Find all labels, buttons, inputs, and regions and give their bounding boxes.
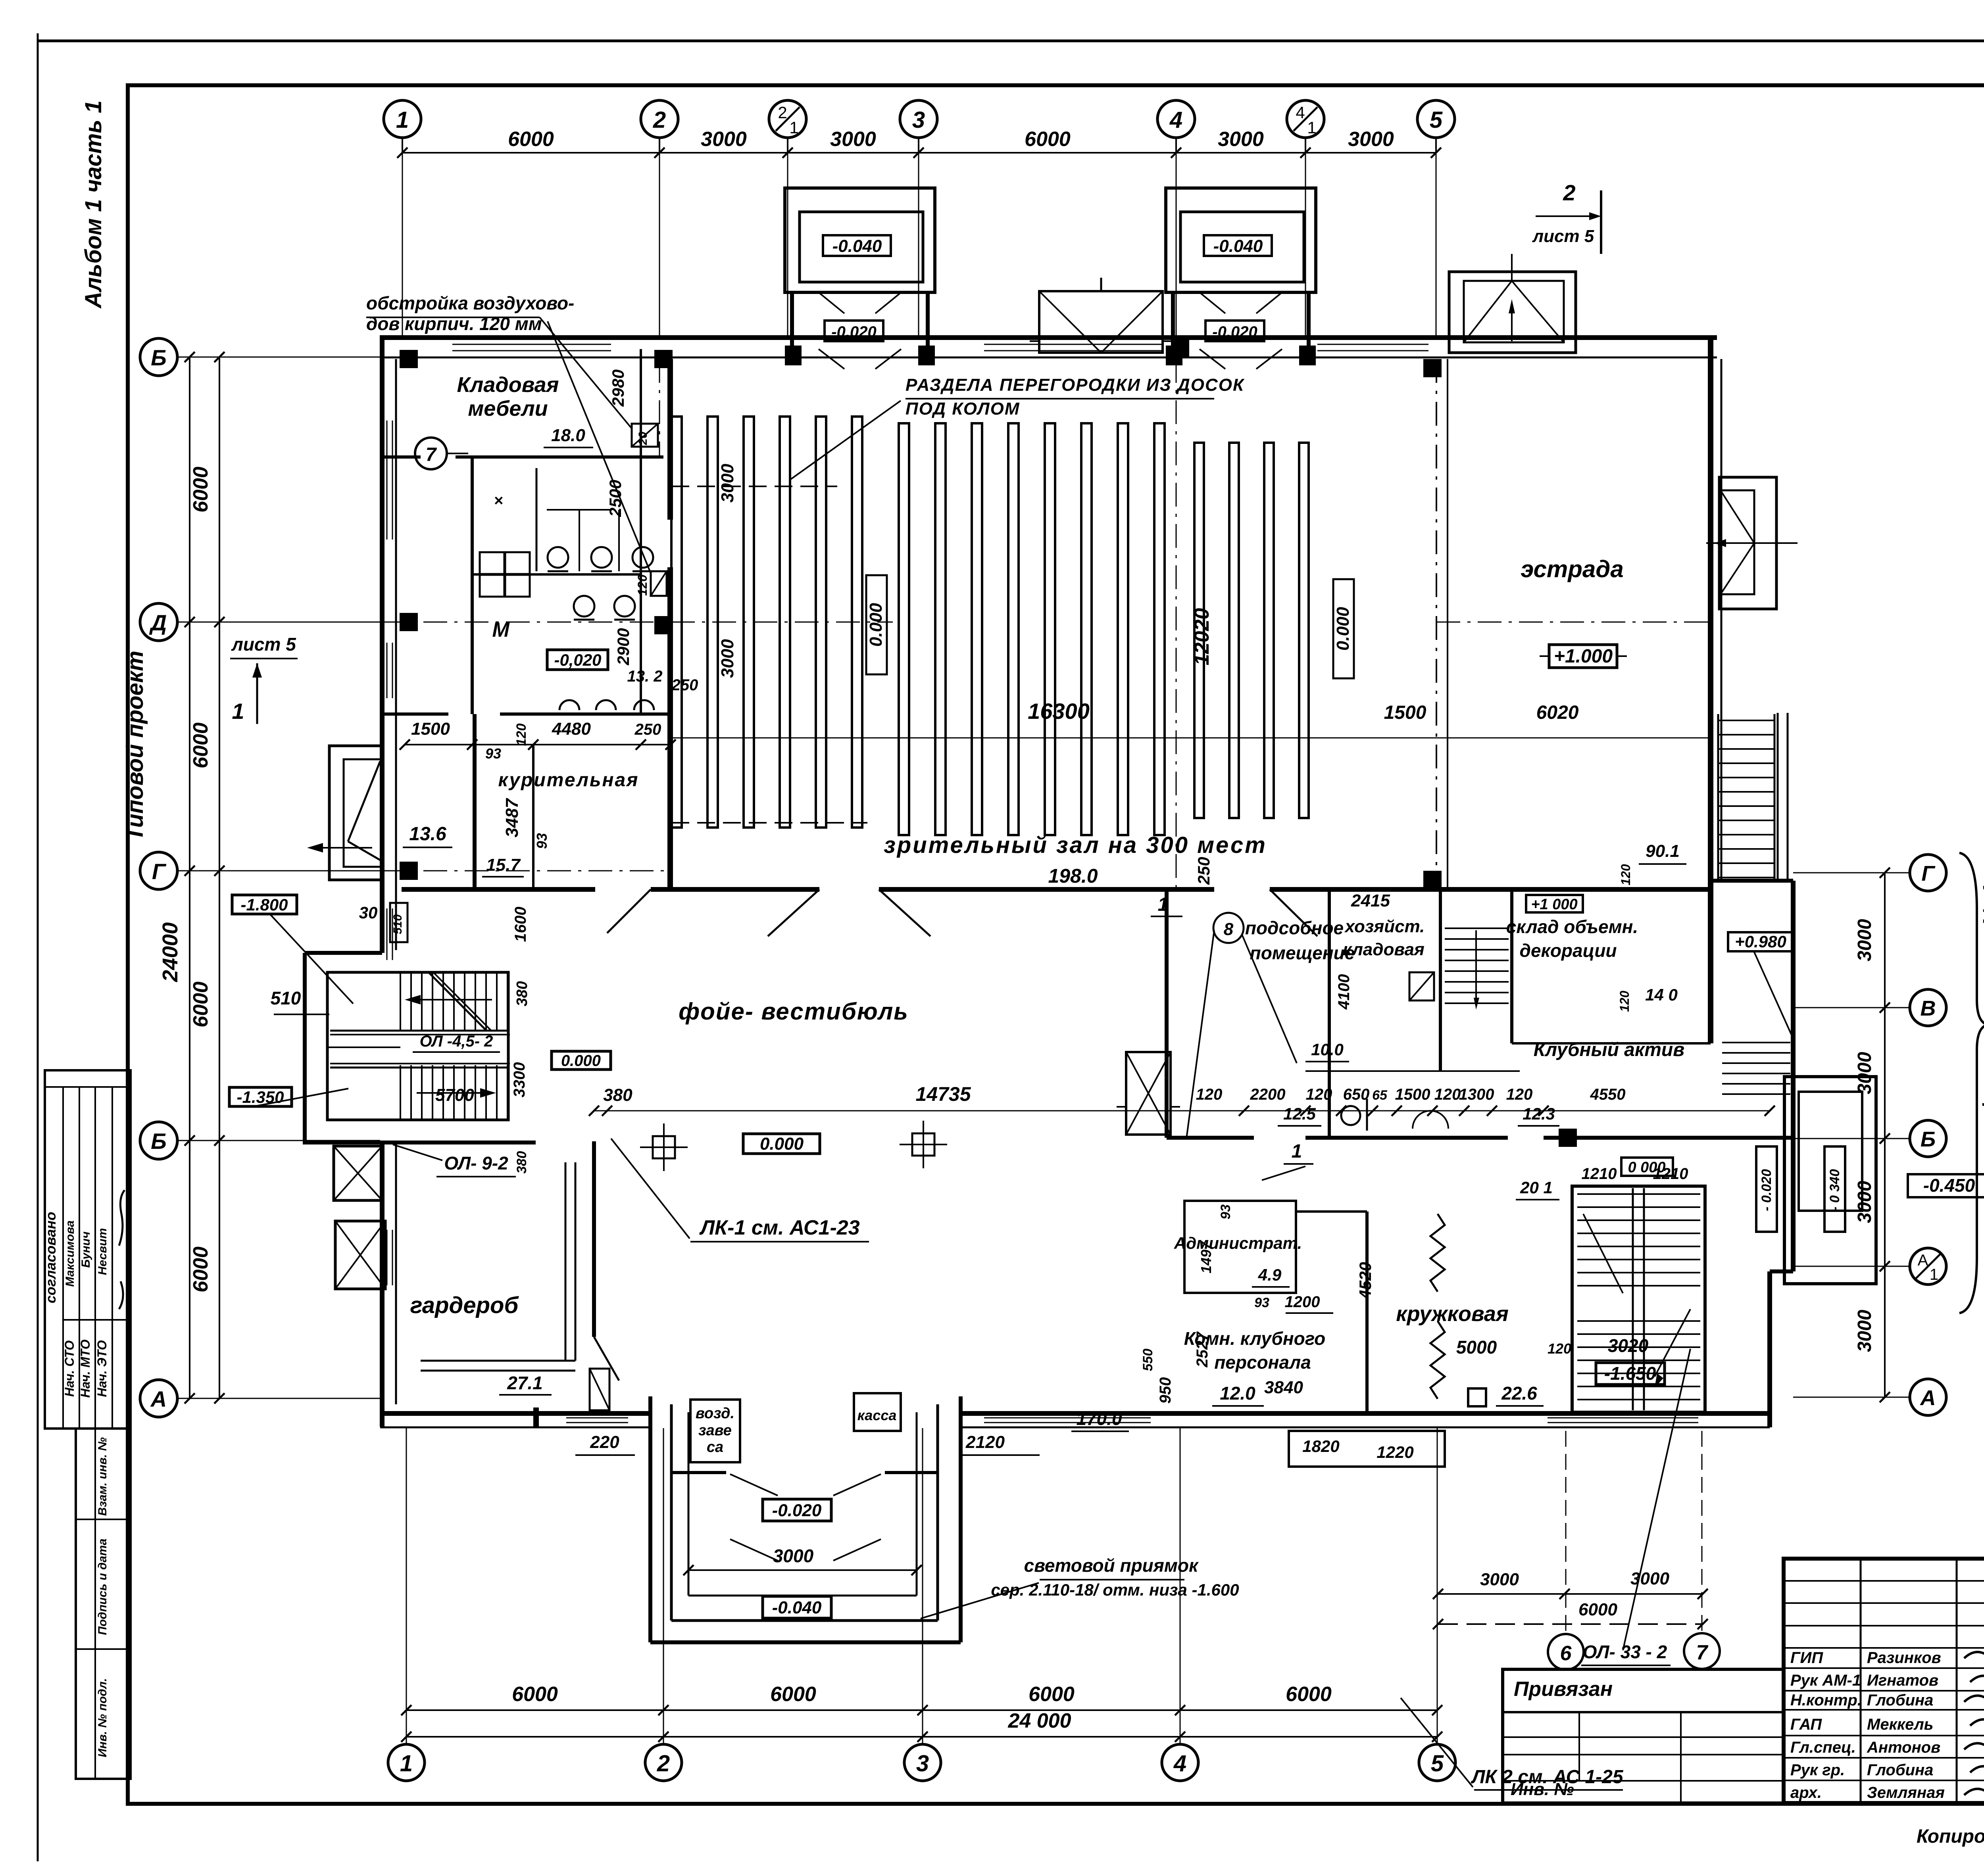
svg-text:2980: 2980 bbox=[609, 369, 627, 407]
svg-text:Гл.спец.: Гл.спец. bbox=[1790, 1739, 1856, 1756]
svg-text:сер. 2.110-18/ отм. низа -1.60: сер. 2.110-18/ отм. низа -1.600 bbox=[991, 1580, 1239, 1599]
svg-text:2120: 2120 bbox=[965, 1432, 1005, 1452]
svg-text:6000: 6000 bbox=[770, 1683, 816, 1706]
door post (bottom wall near axis 1) bbox=[533, 1407, 539, 1427]
svg-text:1497: 1497 bbox=[1198, 1241, 1214, 1273]
svg-text:8: 8 bbox=[1224, 920, 1234, 939]
svg-text:РАЗДЕЛА ПЕРЕГОРОДКИ ИЗ ДОСОК: РАЗДЕЛА ПЕРЕГОРОДКИ ИЗ ДОСОК bbox=[905, 375, 1245, 395]
svg-text:6000: 6000 bbox=[508, 128, 554, 151]
svg-text:-0.020: -0.020 bbox=[831, 323, 876, 341]
svg-text:Бунич: Бунич bbox=[79, 1231, 92, 1267]
svg-text:2527: 2527 bbox=[1194, 1331, 1211, 1368]
svg-text:Нач. МТО: Нач. МТО bbox=[78, 1339, 92, 1398]
svg-text:7: 7 bbox=[1696, 1641, 1709, 1664]
svg-text:3840: 3840 bbox=[1264, 1378, 1303, 1397]
svg-text:-0.040: -0.040 bbox=[772, 1598, 822, 1617]
svg-text:подсобное: подсобное bbox=[1245, 918, 1344, 938]
building top outer wall (axis Б) bbox=[380, 335, 1717, 340]
svg-text:13.6: 13.6 bbox=[409, 824, 446, 845]
fixtures middle band bbox=[1409, 972, 1434, 1000]
svg-text:0 000: 0 000 bbox=[1628, 1159, 1665, 1176]
svg-text:1: 1 bbox=[1158, 894, 1169, 915]
inventory stamp block (Инв / Подпись / Взам) bbox=[76, 1429, 131, 1779]
axis 2 bottom circle bbox=[645, 1744, 682, 1781]
svg-text:Максимова: Максимова bbox=[63, 1220, 77, 1287]
stair ЛК-2 block bbox=[1572, 1186, 1705, 1412]
axis 6 bottom circle bbox=[1548, 1634, 1584, 1670]
approval stamp block (согласовано) bbox=[45, 1070, 131, 1429]
svg-text:3487: 3487 bbox=[502, 798, 522, 837]
door mark 7 bbox=[415, 438, 447, 469]
svg-text:20: 20 bbox=[636, 432, 650, 445]
svg-text:6000: 6000 bbox=[1025, 128, 1071, 151]
svg-text:Глобина: Глобина bbox=[1867, 1761, 1933, 1779]
bottom entrance vestibule (axis 2-3) nested walls bbox=[648, 1396, 652, 1642]
dim 3000 bottom vestibule bbox=[688, 1569, 917, 1571]
svg-text:4: 4 bbox=[1296, 103, 1305, 122]
svg-text:3000: 3000 bbox=[1854, 1310, 1875, 1352]
stage exit opening with X bbox=[1719, 477, 1776, 609]
window double lines top wall bbox=[452, 344, 611, 345]
svg-text:помещение: помещение bbox=[1250, 943, 1355, 963]
svg-text:кладовая: кладовая bbox=[1343, 940, 1425, 959]
elevation 0.000 (hall right) bbox=[1333, 579, 1354, 678]
svg-text:Инв. № подл.: Инв. № подл. bbox=[96, 1678, 109, 1757]
vestibule partitions bbox=[671, 1471, 726, 1474]
svg-text:93: 93 bbox=[1254, 1295, 1269, 1310]
window double lines left wall bbox=[386, 421, 388, 540]
svg-text:-0,020: -0,020 bbox=[554, 651, 601, 669]
svg-text:4: 4 bbox=[1173, 1751, 1186, 1776]
svg-text:22.6: 22.6 bbox=[1501, 1383, 1537, 1404]
auditorium seat rows group B bbox=[899, 423, 909, 835]
svg-text:93: 93 bbox=[1218, 1204, 1233, 1219]
svg-text:16300: 16300 bbox=[1028, 699, 1090, 724]
svg-text:хозяйст.: хозяйст. bbox=[1344, 917, 1425, 936]
svg-text:6020: 6020 bbox=[1536, 702, 1579, 723]
svg-text:2: 2 bbox=[653, 107, 666, 133]
svg-text:Игнатов: Игнатов bbox=[1867, 1672, 1938, 1689]
svg-text:световой приямок: световой приямок bbox=[1024, 1555, 1199, 1576]
svg-text:12.5: 12.5 bbox=[1283, 1104, 1316, 1123]
svg-text:2200: 2200 bbox=[1250, 1086, 1286, 1103]
svg-text:93: 93 bbox=[485, 745, 501, 762]
elevation 0.000 (foyer near stair) bbox=[552, 1051, 611, 1070]
svg-text:Кладовая: Кладовая bbox=[457, 373, 559, 397]
svg-text:93: 93 bbox=[534, 833, 550, 849]
svg-text:Типовой проект: Типовой проект bbox=[122, 651, 148, 841]
svg-text:1210: 1210 bbox=[1582, 1165, 1617, 1183]
svg-text:×: × bbox=[494, 492, 503, 509]
stair arrows bbox=[413, 999, 492, 1000]
svg-text:220: 220 bbox=[590, 1432, 619, 1452]
svg-text:250: 250 bbox=[1194, 857, 1213, 885]
svg-text:фойе- вестибюль: фойе- вестибюль bbox=[679, 998, 909, 1025]
elevation -0.450 bbox=[1908, 1174, 1984, 1197]
svg-text:1: 1 bbox=[232, 699, 244, 724]
svg-text:курительная: курительная bbox=[498, 770, 639, 791]
elevation -1.350 bbox=[229, 1087, 292, 1106]
toilet block walls bbox=[471, 459, 474, 714]
axis А left circle bbox=[140, 1380, 177, 1417]
stall partitions bbox=[536, 468, 538, 571]
axis 5 top circle bbox=[1417, 100, 1455, 138]
svg-text:гардероб: гардероб bbox=[410, 1292, 519, 1318]
svg-text:4520: 4520 bbox=[1356, 1262, 1375, 1299]
svg-text:Г: Г bbox=[152, 859, 167, 884]
svg-text:6000: 6000 bbox=[189, 981, 212, 1027]
hall internal dimension line 16300 bbox=[671, 737, 1711, 739]
svg-text:0.000: 0.000 bbox=[1333, 607, 1353, 651]
right porch nested rects bbox=[1784, 1077, 1876, 1284]
hall south wall bbox=[402, 887, 595, 892]
elevation 0.000 (hall left) bbox=[866, 575, 887, 674]
corridor wall axis Б2 bbox=[1167, 1136, 1254, 1140]
svg-text:Рук АМ-1: Рук АМ-1 bbox=[1790, 1672, 1861, 1689]
axis 2 top circle bbox=[641, 100, 678, 138]
svg-text:120: 120 bbox=[1617, 991, 1632, 1012]
wardrobe counter bbox=[565, 1162, 567, 1361]
svg-text:Меккель: Меккель bbox=[1867, 1716, 1933, 1733]
svg-text:Взам. инв. №: Взам. инв. № bbox=[96, 1437, 109, 1516]
axis 3 bottom circle bbox=[904, 1744, 941, 1781]
svg-text:4.9: 4.9 bbox=[1258, 1265, 1282, 1284]
svg-text:120: 120 bbox=[1548, 1340, 1571, 1357]
building bottom outer wall (axis А) bbox=[380, 1411, 648, 1416]
svg-text:1: 1 bbox=[400, 1751, 413, 1776]
svg-text:касса: касса bbox=[857, 1407, 897, 1423]
svg-text:380: 380 bbox=[514, 1151, 529, 1174]
svg-text:1500: 1500 bbox=[1395, 1086, 1430, 1103]
title block main frame bbox=[1784, 1559, 1984, 1803]
svg-text:- 0.020: - 0.020 bbox=[1759, 1169, 1774, 1211]
svg-text:ГАП: ГАП bbox=[1790, 1716, 1822, 1733]
svg-text:-0.020: -0.020 bbox=[772, 1501, 822, 1520]
svg-text:ОЛ -4,5- 2: ОЛ -4,5- 2 bbox=[420, 1033, 493, 1050]
svg-text:Нач. СТО: Нач. СТО bbox=[62, 1340, 77, 1397]
top entrance vestibule outer bbox=[785, 188, 935, 292]
svg-text:24 000: 24 000 bbox=[1007, 1709, 1071, 1732]
возд.завеса box bbox=[690, 1400, 740, 1462]
bottom axis dimension lines bbox=[406, 1709, 1437, 1711]
svg-text:-1.800: -1.800 bbox=[240, 895, 288, 914]
vestibule inner passage bbox=[1171, 292, 1175, 359]
urinal arcs bbox=[559, 700, 579, 710]
svg-text:А: А bbox=[150, 1386, 167, 1411]
axis 4/1 top circle bbox=[1287, 100, 1324, 138]
svg-text:550: 550 bbox=[1140, 1349, 1155, 1371]
axis Б right circle bbox=[1910, 1120, 1946, 1157]
axis 4 top circle bbox=[1157, 100, 1195, 138]
door swings bottom vestibule bbox=[730, 1474, 778, 1496]
svg-text:120: 120 bbox=[1434, 1086, 1461, 1103]
svg-text:3000: 3000 bbox=[1218, 128, 1264, 151]
stage right wall bbox=[1708, 335, 1713, 1043]
auditorium seat rows group A bbox=[671, 417, 682, 828]
svg-text:са: са bbox=[707, 1439, 723, 1455]
svg-text:эстрада: эстрада bbox=[1521, 556, 1624, 582]
svg-text:Нач. ЭТО: Нач. ЭТО bbox=[95, 1340, 109, 1397]
storage room partition (кладовая мебели) bbox=[382, 455, 421, 459]
left axis circles and dims bbox=[219, 357, 220, 1398]
svg-text:1500: 1500 bbox=[1384, 702, 1426, 723]
svg-text:7: 7 bbox=[426, 444, 437, 465]
svg-text:Несвит: Несвит bbox=[96, 1228, 109, 1275]
svg-text:3000: 3000 bbox=[1854, 1052, 1875, 1094]
top axis dimension line bbox=[402, 152, 1436, 154]
svg-text:18.0: 18.0 bbox=[551, 426, 585, 445]
svg-text:Копировал: Рулькова: Копировал: Рулькова bbox=[1917, 1826, 1984, 1847]
svg-text:+1 000: +1 000 bbox=[1531, 896, 1577, 913]
title block signature grid bbox=[1860, 1559, 1862, 1803]
elevation -0.020 (toilets) bbox=[547, 650, 608, 670]
axis Б left circle bbox=[140, 1122, 177, 1159]
svg-text:-1.350: -1.350 bbox=[236, 1088, 284, 1106]
svg-text:Клубный актив: Клубный актив bbox=[1534, 1039, 1684, 1060]
title block left extension (Привязан / Инв №) bbox=[1503, 1669, 1784, 1803]
svg-text:- 0 340: - 0 340 bbox=[1827, 1169, 1842, 1211]
svg-text:6000: 6000 bbox=[189, 1246, 212, 1292]
elevation -1.800 bbox=[232, 895, 297, 914]
svg-text:3000: 3000 bbox=[718, 464, 737, 503]
svg-text:ПОД КОЛОМ: ПОД КОЛОМ bbox=[905, 399, 1020, 419]
svg-text:14 0: 14 0 bbox=[1645, 985, 1678, 1004]
svg-text:декорации: декорации bbox=[1519, 940, 1617, 961]
svg-text:1600: 1600 bbox=[512, 907, 529, 942]
sheet outer trim border bbox=[37, 33, 39, 1861]
svg-text:-1.650: -1.650 bbox=[1604, 1363, 1656, 1384]
door mark 8 leader bbox=[1186, 930, 1214, 1139]
elevation -0.040 bbox=[1204, 235, 1272, 256]
niche with hatch (кладовая) bbox=[632, 424, 658, 447]
svg-text:12020: 12020 bbox=[1190, 608, 1213, 666]
main stair ОЛ-4,5-2 well bbox=[327, 972, 508, 1120]
svg-text:Рук гр.: Рук гр. bbox=[1790, 1761, 1845, 1779]
svg-text:ОЛ- 9-2: ОЛ- 9-2 bbox=[444, 1153, 508, 1173]
column marks foyer bbox=[653, 1136, 675, 1158]
svg-text:510: 510 bbox=[391, 914, 404, 934]
svg-text:Земляная: Земляная bbox=[1867, 1784, 1945, 1801]
svg-text:3: 3 bbox=[912, 107, 925, 133]
svg-text:5: 5 bbox=[1431, 1751, 1444, 1776]
vestibule inner passage bbox=[790, 292, 794, 359]
toilet fixtures bbox=[480, 552, 504, 574]
left porch upper (ОЛ-9-2 exit) bbox=[334, 1146, 382, 1200]
svg-text:3020: 3020 bbox=[1608, 1335, 1649, 1356]
svg-text:6000: 6000 bbox=[1029, 1683, 1075, 1706]
svg-text:Разинков: Разинков bbox=[1867, 1649, 1941, 1667]
svg-text:Б: Б bbox=[1921, 1127, 1936, 1151]
svg-text:6000: 6000 bbox=[1286, 1683, 1332, 1706]
folding partition (кружковая) bbox=[1430, 1214, 1445, 1292]
svg-text:13. 2: 13. 2 bbox=[627, 668, 663, 685]
svg-text:120: 120 bbox=[1196, 1086, 1223, 1103]
platform with X between vestibules bbox=[1039, 291, 1163, 353]
svg-text:20 1: 20 1 bbox=[1520, 1178, 1553, 1197]
small house stair (хоз) bbox=[1445, 927, 1509, 929]
svg-text:4: 4 bbox=[1169, 107, 1182, 133]
svg-text:120: 120 bbox=[1306, 1086, 1332, 1103]
proscenium line bbox=[1436, 359, 1437, 889]
svg-text:6000: 6000 bbox=[512, 1683, 558, 1706]
foyer dim line 14735 bbox=[594, 1110, 1770, 1112]
svg-text:В: В bbox=[1921, 997, 1936, 1020]
svg-text:1: 1 bbox=[1307, 118, 1316, 137]
svg-text:170.0: 170.0 bbox=[1076, 1408, 1122, 1429]
svg-text:Н.контр.: Н.контр. bbox=[1790, 1692, 1862, 1709]
svg-text:1820: 1820 bbox=[1302, 1437, 1339, 1455]
axis 4 bottom circle bbox=[1162, 1744, 1198, 1781]
axis Д left circle bbox=[140, 603, 177, 641]
left porch at smoking room (Д-Г) bbox=[329, 746, 382, 880]
svg-text:0.000: 0.000 bbox=[866, 603, 886, 647]
svg-text:+0.980: +0.980 bbox=[1735, 932, 1786, 951]
elevation -1.650 bbox=[1596, 1363, 1665, 1384]
svg-text:2500: 2500 bbox=[606, 480, 625, 517]
svg-text:90.1: 90.1 bbox=[1646, 841, 1680, 861]
svg-text:согласовано: согласовано bbox=[42, 1212, 59, 1304]
dims under toilets bbox=[405, 744, 671, 745]
axis В right circle bbox=[1910, 989, 1946, 1026]
axis 7 bottom circle bbox=[1684, 1633, 1720, 1669]
svg-text:15.7: 15.7 bbox=[486, 855, 521, 875]
svg-text:зрительный зал на 300 мест: зрительный зал на 300 мест bbox=[884, 832, 1267, 858]
axis Д dash line through plan bbox=[382, 622, 893, 623]
svg-text:Б: Б bbox=[151, 345, 167, 370]
top entrance vestibule outer bbox=[1166, 188, 1316, 292]
axis 2/1 top circle bbox=[769, 100, 806, 138]
svg-text:380: 380 bbox=[603, 1085, 632, 1105]
svg-text:2900: 2900 bbox=[614, 628, 632, 665]
svg-text:3000: 3000 bbox=[1348, 128, 1394, 151]
fragment brace bbox=[1959, 853, 1984, 1313]
partition hall/foyer bbox=[667, 359, 673, 520]
axis А/1 right circle bbox=[1910, 1248, 1946, 1285]
window niche with diagonal (гардероб south) bbox=[590, 1369, 609, 1410]
svg-text:фрагмент плана № 1: фрагмент плана № 1 bbox=[1979, 883, 1984, 1116]
svg-text:1500: 1500 bbox=[411, 719, 450, 739]
svg-text:1: 1 bbox=[1930, 1266, 1938, 1283]
svg-text:-0.040: -0.040 bbox=[832, 236, 882, 256]
svg-text:6: 6 bbox=[1560, 1642, 1572, 1665]
svg-text:5700: 5700 bbox=[435, 1085, 474, 1105]
svg-text:Привязан: Привязан bbox=[1514, 1678, 1613, 1701]
svg-text:1300: 1300 bbox=[1459, 1086, 1494, 1103]
elevation 0 000 bbox=[1621, 1158, 1673, 1176]
svg-text:14735: 14735 bbox=[915, 1083, 971, 1105]
elevation -0.040 bbox=[823, 235, 891, 256]
svg-text:ЛК-1 см. АС1-23: ЛК-1 см. АС1-23 bbox=[699, 1216, 859, 1239]
svg-text:120: 120 bbox=[514, 724, 529, 746]
svg-text:12.0: 12.0 bbox=[1220, 1383, 1255, 1404]
lower rooms partitions bbox=[1184, 1201, 1296, 1293]
svg-text:кружковая: кружковая bbox=[1396, 1302, 1509, 1326]
svg-text:3000: 3000 bbox=[830, 128, 876, 151]
svg-text:24000: 24000 bbox=[158, 922, 182, 982]
axis Г left circle bbox=[140, 852, 177, 889]
svg-text:380: 380 bbox=[514, 981, 531, 1006]
axis Г right circle bbox=[1910, 854, 1946, 891]
svg-text:950: 950 bbox=[1157, 1377, 1174, 1404]
svg-text:2: 2 bbox=[1563, 180, 1575, 205]
svg-text:1200: 1200 bbox=[1285, 1293, 1320, 1311]
axis 1 top circle bbox=[384, 100, 421, 138]
smoking room partition bbox=[473, 714, 477, 889]
svg-text:Д: Д bbox=[149, 610, 167, 635]
svg-text:198.0: 198.0 bbox=[1048, 865, 1098, 887]
svg-text:250: 250 bbox=[634, 721, 661, 738]
svg-text:лист 5: лист 5 bbox=[1532, 227, 1594, 246]
left porch lower bbox=[335, 1221, 385, 1289]
axis 4 dash line through hall bbox=[1176, 359, 1177, 889]
axis 2 dash line through storage bbox=[659, 359, 660, 457]
svg-text:5000: 5000 bbox=[1456, 1337, 1497, 1358]
svg-text:5: 5 bbox=[1430, 107, 1443, 133]
svg-text:Г: Г bbox=[1921, 862, 1936, 885]
svg-text:3300: 3300 bbox=[511, 1062, 528, 1098]
exterior stair right of stage bbox=[1717, 714, 1719, 881]
svg-text:мебели: мебели bbox=[468, 397, 548, 421]
stage side stair +0.980 bbox=[1722, 1042, 1790, 1043]
svg-text:65: 65 bbox=[1372, 1088, 1388, 1103]
svg-text:2415: 2415 bbox=[1351, 891, 1390, 910]
svg-text:заве: заве bbox=[698, 1422, 732, 1439]
middle band rooms bbox=[1213, 913, 1244, 943]
elevation -0.020 (right porch) bbox=[1756, 1146, 1777, 1232]
partition split dashed lines bbox=[671, 486, 837, 487]
svg-text:6000: 6000 bbox=[189, 467, 212, 513]
svg-text:2: 2 bbox=[657, 1751, 670, 1776]
svg-text:1: 1 bbox=[1292, 1141, 1302, 1162]
svg-text:-0.450: -0.450 bbox=[1923, 1175, 1975, 1196]
svg-text:Антонов: Антонов bbox=[1867, 1739, 1940, 1756]
svg-text:А: А bbox=[1918, 1252, 1928, 1269]
svg-text:Глобина: Глобина bbox=[1867, 1692, 1933, 1709]
svg-text:120: 120 bbox=[1619, 864, 1633, 885]
svg-text:+1.000: +1.000 bbox=[1554, 646, 1613, 667]
svg-text:лист 5: лист 5 bbox=[231, 634, 296, 655]
svg-text:ГИП: ГИП bbox=[1790, 1649, 1823, 1667]
svg-text:6000: 6000 bbox=[189, 722, 212, 768]
svg-text:М: М bbox=[492, 618, 510, 641]
svg-text:10.0: 10.0 bbox=[1311, 1040, 1344, 1059]
svg-text:дов кирпич. 120 мм: дов кирпич. 120 мм bbox=[366, 313, 542, 334]
axis 5 bottom circle bbox=[1419, 1744, 1455, 1781]
svg-text:-0.020: -0.020 bbox=[1212, 323, 1257, 341]
svg-text:4480: 4480 bbox=[552, 719, 591, 739]
svg-text:3000: 3000 bbox=[1854, 1181, 1875, 1223]
bottom porch near кружковая bbox=[1289, 1431, 1445, 1467]
svg-text:ЛК 2 см. АС 1-25: ЛК 2 см. АС 1-25 bbox=[1471, 1767, 1623, 1788]
svg-text:арх.: арх. bbox=[1790, 1784, 1822, 1801]
svg-text:Подпись и дата: Подпись и дата bbox=[96, 1538, 109, 1635]
svg-text:650: 650 bbox=[1343, 1086, 1370, 1103]
svg-text:0.000: 0.000 bbox=[760, 1134, 804, 1154]
svg-text:510: 510 bbox=[271, 988, 301, 1008]
elevation -0.340 bbox=[1824, 1146, 1845, 1232]
svg-text:3000: 3000 bbox=[1480, 1570, 1519, 1589]
svg-text:250: 250 bbox=[671, 676, 698, 694]
svg-text:120: 120 bbox=[635, 574, 650, 596]
svg-text:возд.: возд. bbox=[696, 1405, 734, 1422]
axis А right circle bbox=[1910, 1379, 1946, 1415]
svg-text:1: 1 bbox=[789, 118, 798, 137]
svg-text:А: А bbox=[1920, 1386, 1936, 1410]
wardrobe room wall bbox=[592, 1141, 596, 1337]
niche toilet bbox=[651, 571, 667, 596]
axis Г dash line left part bbox=[382, 870, 670, 872]
duct shaft with X (foyer east) bbox=[1126, 1052, 1171, 1135]
